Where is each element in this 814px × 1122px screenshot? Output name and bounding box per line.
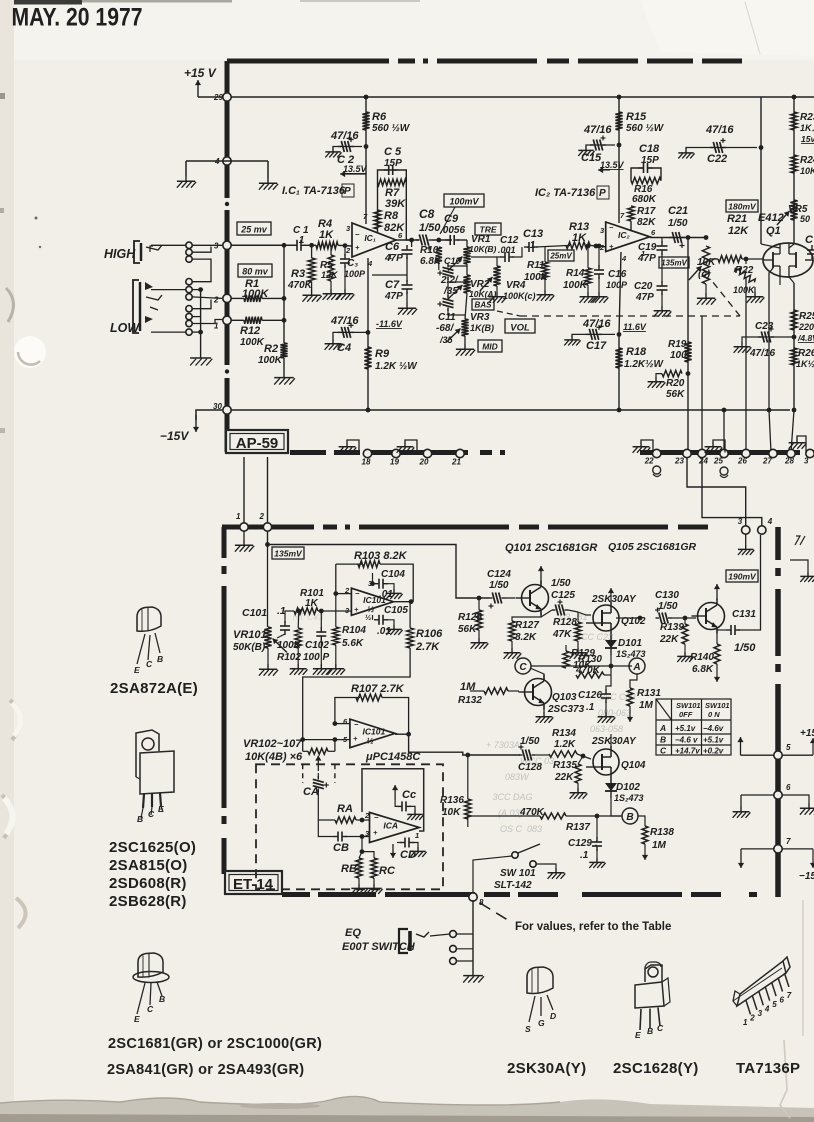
C15 label	[581, 152, 602, 164]
ground ET pin1	[235, 540, 254, 552]
resistor R131	[627, 688, 633, 706]
SW101 part	[494, 880, 532, 891]
C104 value	[379, 589, 393, 600]
right edge crease	[802, 900, 804, 1036]
R132 label a	[460, 681, 476, 693]
svg-text:5: 5	[772, 1000, 777, 1009]
ground pin3 stub	[738, 545, 754, 555]
C21 value	[668, 218, 688, 229]
Cc label	[402, 789, 416, 801]
ET terminal 4	[758, 517, 773, 534]
R23 label	[800, 112, 814, 123]
13.5V arrow	[340, 171, 352, 177]
svg-text:RC: RC	[379, 865, 396, 877]
svg-text:2.2/: 2.2/	[440, 275, 459, 286]
vol value b	[698, 269, 711, 280]
resistor R21	[718, 256, 742, 263]
svg-text:6: 6	[786, 783, 791, 792]
punch hole arc 3	[2, 795, 13, 838]
jct R15 C15	[617, 143, 622, 148]
svg-text:+: +	[373, 828, 378, 837]
C20 label	[634, 281, 653, 292]
R22 diagonal	[734, 265, 757, 285]
R9 label	[375, 348, 390, 360]
LOW label	[110, 321, 140, 335]
svg-text:1/50: 1/50	[520, 736, 540, 747]
jct r26 rail	[792, 408, 797, 413]
C1 value	[296, 235, 305, 246]
svg-text:56K: 56K	[666, 389, 685, 400]
C23 wire	[748, 336, 794, 338]
cut cap label	[805, 234, 814, 246]
100mV pointer	[440, 207, 455, 234]
ground bottom right	[789, 438, 807, 449]
VR5 value	[800, 214, 810, 224]
svg-text:Cc: Cc	[402, 789, 416, 801]
C126 branch	[606, 666, 611, 690]
C102 value	[303, 652, 329, 663]
VR102 value	[245, 751, 303, 763]
EQ dashed box	[256, 764, 443, 889]
svg-text:R131: R131	[637, 688, 661, 699]
svg-text:R137: R137	[566, 822, 590, 833]
R24 value	[800, 166, 814, 176]
svg-text:C129 :: C129 :	[568, 838, 598, 849]
R9 value	[375, 361, 418, 372]
capacitor C11	[438, 295, 454, 311]
Q101 collector arrow	[538, 566, 544, 584]
svg-text:IC₂ TA-7136: IC₂ TA-7136	[535, 187, 596, 199]
resistor RB	[356, 858, 362, 878]
svg-text:+: +	[609, 242, 614, 251]
R18 value	[624, 359, 664, 370]
meas box TRE	[475, 223, 501, 235]
capacitor C2	[338, 137, 354, 152]
pin5 wire	[741, 754, 775, 756]
Q104 label	[621, 760, 646, 771]
svg-text:R17: R17	[637, 206, 656, 217]
svg-text:.01: .01	[377, 626, 391, 637]
svg-text:2: 2	[259, 512, 265, 521]
C12 VR4 branch	[471, 256, 501, 258]
svg-text:R15: R15	[626, 111, 647, 123]
capacitor C129	[592, 837, 602, 851]
R5 value	[321, 270, 339, 280]
C9 value	[440, 225, 465, 236]
op-amp IC2	[599, 211, 656, 263]
capacitor C128	[519, 745, 536, 761]
R106 label	[416, 628, 443, 640]
resistor R101	[294, 608, 318, 614]
svg-text:C130: C130	[655, 590, 679, 601]
RB label	[341, 863, 357, 875]
jct b node	[595, 814, 600, 819]
R127 label	[515, 620, 539, 631]
ground R5	[323, 289, 341, 300]
svg-text:5: 5	[786, 743, 791, 752]
13.5V annotation ch1	[346, 173, 366, 175]
R104 label	[342, 625, 366, 636]
svg-text:C: C	[519, 662, 527, 673]
-15V arrow	[193, 415, 199, 432]
C3 label	[347, 258, 358, 269]
svg-text:A: A	[659, 723, 666, 733]
capacitor Cc	[397, 801, 411, 811]
svg-text:P: P	[599, 188, 606, 199]
C19 value	[637, 253, 656, 264]
svg-text:1K(B): 1K(B)	[470, 323, 494, 333]
svg-text:+: +	[353, 734, 358, 743]
package drawing TA7136P	[733, 957, 792, 1027]
jct C16 top	[597, 244, 602, 249]
R10 label	[420, 245, 439, 256]
link AP pin24 to ET pin4	[702, 458, 762, 526]
R4 label	[318, 218, 332, 230]
svg-text:1/50: 1/50	[551, 578, 571, 589]
jct c130	[638, 616, 643, 621]
ICA vminus arrow	[390, 844, 396, 858]
For values note	[515, 921, 671, 933]
C101 branch	[277, 634, 285, 638]
svg-text:.01: .01	[379, 589, 393, 600]
svg-text:SCC C23: SCC C23	[575, 632, 613, 642]
D102 label	[616, 782, 640, 793]
terminal 1	[214, 316, 231, 330]
svg-text:CD: CD	[400, 849, 416, 861]
ground R104	[327, 664, 345, 675]
Q105 collector arrow	[714, 584, 720, 600]
RC label	[379, 865, 396, 877]
svg-text:100K: 100K	[240, 337, 265, 348]
resistor R8	[374, 210, 381, 229]
R131 label	[637, 688, 661, 699]
FOOT SWITCH label	[342, 941, 416, 953]
R8 label	[384, 210, 399, 222]
capacitor C105	[374, 615, 388, 625]
resistor R137	[540, 813, 566, 819]
Q1 label b	[766, 225, 781, 237]
ground VR101	[259, 664, 278, 676]
svg-text:8.2K: 8.2K	[515, 632, 537, 643]
jct out col	[686, 235, 691, 240]
ground C129	[589, 858, 605, 868]
ground bottom 405	[397, 442, 415, 453]
svg-text:HIGH: HIGH	[104, 247, 136, 261]
C6 label	[385, 241, 400, 253]
resistor R5	[328, 255, 334, 281]
ground right outside	[800, 803, 814, 815]
jct R15 top	[617, 95, 622, 100]
resistor R14	[585, 268, 591, 285]
jct R18 rail	[617, 408, 622, 413]
Q105 emitter net	[716, 630, 718, 644]
ground vol	[697, 293, 716, 305]
junction 8 wire	[473, 858, 505, 895]
capacitor C102	[316, 627, 326, 641]
resistor R4	[316, 242, 338, 249]
svg-text:1K½: 1K½	[796, 359, 814, 369]
svg-text:100P: 100P	[344, 269, 366, 279]
svg-text:TRE: TRE	[480, 225, 497, 235]
C125 label a	[551, 578, 571, 589]
svg-text:13.5V: 13.5V	[600, 160, 625, 170]
AP-59 left border bus	[225, 61, 230, 198]
C4 rating	[330, 315, 359, 327]
svg-text:WCC 03: WCC 03	[520, 756, 554, 766]
svg-text:+5.1v: +5.1v	[703, 736, 724, 745]
potentiometer VR2	[448, 275, 471, 299]
terminal 18 bottom	[362, 449, 372, 466]
svg-text:B: B	[137, 814, 143, 824]
IC2 label box P	[597, 186, 609, 199]
RB RC branches	[361, 837, 363, 852]
jct d101	[609, 664, 614, 669]
svg-text:-68/: -68/	[436, 323, 454, 334]
terminal 26 bottom	[737, 449, 750, 465]
EQ foot switch jack	[399, 929, 408, 953]
Q101 emitter net	[512, 612, 541, 621]
IC101a output	[393, 601, 413, 603]
svg-text:VR3: VR3	[470, 312, 490, 323]
jct in b1	[300, 737, 305, 742]
svg-text:1/50: 1/50	[489, 580, 509, 591]
svg-text:IC₂: IC₂	[618, 230, 631, 240]
svg-text:E: E	[158, 804, 164, 814]
VR102 wiper	[315, 756, 321, 772]
svg-text:2SC373: 2SC373	[547, 704, 585, 715]
Q102 part no	[591, 594, 637, 605]
VR4 value	[503, 291, 536, 301]
C4 gnd stub	[333, 332, 340, 339]
terminal 22 bottom	[644, 449, 661, 465]
IC2 output wire	[650, 237, 706, 239]
jct C17	[617, 332, 622, 337]
resistor R138	[642, 826, 648, 844]
svg-text:1S₂473: 1S₂473	[616, 649, 645, 659]
C104 label	[381, 569, 405, 580]
resistor R7	[378, 179, 407, 185]
terminal 3	[214, 241, 231, 250]
capacitor C15	[590, 136, 606, 151]
svg-text:B: B	[626, 812, 633, 823]
capacitor cut at edge	[807, 245, 814, 259]
capacitor C20	[657, 281, 668, 295]
transistor Q104	[586, 746, 619, 778]
resistor R132	[484, 688, 508, 694]
pin1 stub	[372, 274, 407, 276]
IC101b output	[395, 733, 409, 735]
R103 label	[354, 550, 408, 562]
page edge top-right white wedge	[640, 0, 814, 56]
R22 label	[735, 265, 754, 276]
svg-text:1/50: 1/50	[419, 222, 441, 234]
resistor R24	[791, 155, 797, 173]
C2 label	[337, 154, 354, 166]
svg-text:−4.6v: −4.6v	[703, 724, 724, 733]
C8 label	[419, 207, 435, 221]
CB branch	[318, 820, 333, 837]
TA7136P label	[736, 1060, 800, 1077]
svg-text:6.8K: 6.8K	[692, 664, 714, 675]
svg-text:26: 26	[737, 457, 747, 466]
svg-text:47/16: 47/16	[583, 124, 612, 136]
jct C1 R3	[309, 243, 314, 248]
ground Q103	[536, 712, 554, 723]
junction 8 column	[472, 900, 474, 970]
node A circle	[629, 658, 645, 674]
VR101 label	[233, 629, 267, 641]
jct R101 left	[296, 609, 301, 614]
C129 branch	[596, 816, 598, 838]
svg-text:50: 50	[800, 214, 810, 224]
jct r139	[683, 616, 688, 621]
jct r134	[581, 754, 586, 759]
jack switch contact L6	[186, 320, 192, 326]
pin5 arrow up	[737, 737, 743, 755]
svg-text:680K: 680K	[632, 194, 657, 205]
resistor R3	[308, 258, 315, 282]
package drawing 2SC1628	[635, 962, 670, 1040]
R14 value	[563, 280, 588, 291]
svg-text:2SK30A(Y): 2SK30A(Y)	[507, 1060, 586, 1077]
svg-text:SW101: SW101	[676, 701, 701, 710]
ground C3	[337, 289, 355, 300]
svg-text:100: 100	[670, 350, 687, 361]
resistor R16	[631, 177, 661, 183]
VR101 value	[233, 642, 266, 653]
jct in a	[282, 243, 287, 248]
R134 label	[552, 728, 576, 739]
svg-text:100mV: 100mV	[449, 197, 479, 207]
resistor R127	[509, 621, 515, 641]
jct jack gnd b	[198, 330, 203, 335]
svg-text:SLT-142: SLT-142	[494, 880, 532, 891]
ground SW101	[548, 868, 566, 879]
node B circle	[622, 808, 638, 824]
resistor R13	[566, 242, 590, 249]
ground C104	[386, 589, 402, 599]
svg-text:R21: R21	[727, 213, 747, 225]
R129 label	[571, 648, 595, 659]
top edge smudge	[14, 0, 82, 5]
svg-text:15v: 15v	[801, 134, 814, 144]
potentiometer 10K vol	[689, 246, 710, 284]
resistor R10	[436, 247, 442, 263]
svg-text:1/50: 1/50	[658, 601, 678, 612]
svg-text:135mV: 135mV	[274, 549, 303, 559]
svg-text:21: 21	[451, 458, 461, 467]
svg-text:+15: +15	[800, 728, 814, 739]
resistor R136	[465, 799, 471, 819]
ground C22	[678, 149, 694, 159]
C128 label b	[518, 762, 542, 773]
R135 value	[554, 772, 574, 783]
ground C20	[654, 306, 672, 317]
resistor RC	[371, 858, 377, 878]
resistor R126	[476, 610, 482, 630]
package drawing 2SC1625	[136, 730, 174, 824]
capacitor C3	[340, 254, 350, 268]
svg-text:ICA: ICA	[383, 820, 398, 830]
R21 label	[727, 213, 747, 225]
ground R102	[290, 664, 308, 675]
svg-text:18: 18	[362, 458, 371, 467]
ET-14 top border	[222, 525, 778, 530]
svg-text:28: 28	[784, 457, 794, 466]
volume wiper to R21	[711, 258, 718, 260]
jct in b	[282, 296, 287, 301]
gnd stub left	[185, 161, 187, 176]
ground jct8	[463, 970, 484, 983]
D101 value	[616, 649, 645, 659]
svg-text:OS C 083: OS C 083	[500, 824, 542, 834]
jack LOW contacts	[145, 282, 153, 290]
jct R14 top	[586, 244, 591, 249]
output jack hooks	[653, 466, 661, 474]
svg-text:C: C	[146, 659, 153, 669]
svg-text:C126: C126	[578, 690, 602, 701]
R1 value	[242, 288, 269, 300]
svg-text:C: C	[148, 809, 155, 819]
resistor R128	[575, 622, 581, 641]
R107 label	[351, 683, 405, 695]
C21 label	[668, 205, 688, 217]
svg-text:1M: 1M	[639, 700, 654, 711]
C1 label	[293, 225, 309, 236]
ground VR3	[456, 344, 475, 356]
svg-text:C: C	[657, 1023, 664, 1033]
jack switch contact L3	[186, 294, 192, 300]
R15 value	[626, 123, 665, 134]
C17 rating	[582, 318, 611, 330]
svg-text:R12: R12	[240, 325, 260, 337]
svg-text:For values, refer to the Table: For values, refer to the Table	[515, 921, 671, 933]
svg-text:C19: C19	[638, 242, 657, 253]
C7 value	[384, 291, 403, 302]
R127 value	[515, 632, 537, 643]
CA column	[317, 773, 319, 778]
R136 value	[442, 807, 461, 818]
pin4 ground rail	[186, 160, 268, 162]
Q104 source chain	[610, 778, 612, 783]
C4 label	[337, 342, 351, 354]
+15 label right	[800, 728, 814, 739]
svg-text:C11: C11	[438, 312, 456, 323]
svg-text:1.2K: 1.2K	[554, 739, 576, 750]
svg-text:22K: 22K	[659, 634, 679, 645]
svg-text:2SC1628(Y): 2SC1628(Y)	[613, 1060, 699, 1077]
svg-text:083W: 083W	[500, 772, 530, 782]
svg-text:E00T SWITCH: E00T SWITCH	[342, 941, 416, 953]
svg-text:29: 29	[213, 93, 223, 102]
Q105 part no	[608, 541, 697, 553]
svg-text:0 N: 0 N	[708, 710, 720, 719]
C104 branch	[372, 573, 374, 584]
resistor R23	[791, 112, 797, 130]
resistor R17	[628, 206, 634, 221]
R130 label	[578, 654, 602, 665]
white blob left	[14, 336, 46, 368]
punch hole arc 4	[16, 898, 26, 928]
svg-text:080-063: 080-063	[598, 708, 631, 718]
2SA815 label	[109, 857, 188, 874]
Q102 drain arrow	[608, 588, 614, 604]
R137 value	[519, 807, 545, 818]
svg-text:2SD608(R): 2SD608(R)	[109, 875, 187, 892]
svg-text:S: S	[525, 1024, 531, 1034]
svg-text:2: 2	[345, 246, 351, 255]
svg-text:.0056: .0056	[440, 225, 465, 236]
